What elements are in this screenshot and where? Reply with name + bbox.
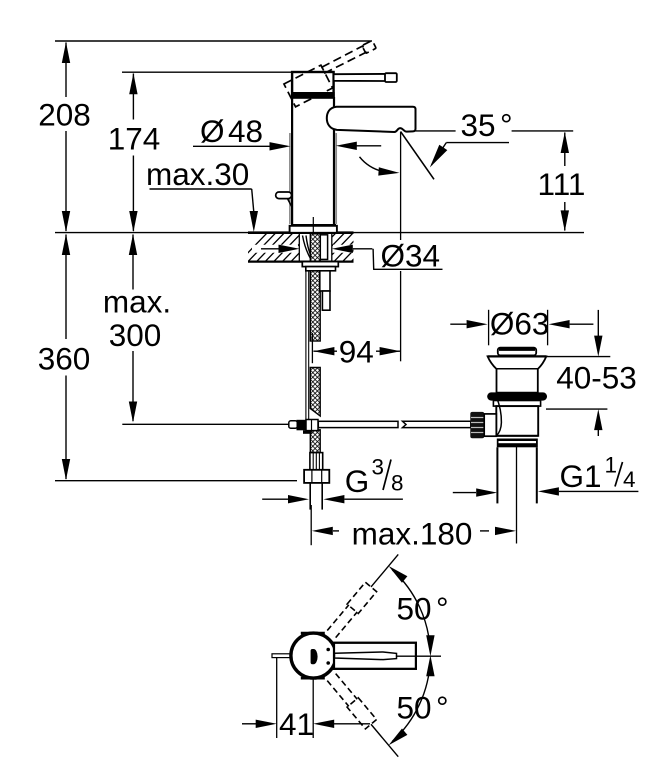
svg-text:G: G <box>345 463 370 499</box>
35deg label <box>415 130 455 132</box>
gray shadow right <box>335 133 337 224</box>
svg-text:35°: 35° <box>461 107 513 143</box>
extension line max300 bottom <box>122 423 289 425</box>
svg-text:3: 3 <box>372 455 385 480</box>
svg-text:1: 1 <box>605 453 618 478</box>
handle rect redraw over circle <box>334 643 416 669</box>
centerline right <box>397 655 441 657</box>
svg-text:4: 4 <box>623 467 636 492</box>
G3/8 arrows <box>262 498 288 500</box>
bottom edge line <box>496 435 538 437</box>
mounting stud <box>320 271 330 291</box>
plug disc <box>498 348 536 356</box>
horizontal pull rod (right piece with break chevron) <box>403 421 471 427</box>
counter top line <box>55 232 584 234</box>
svg-text:300: 300 <box>109 317 162 353</box>
svg-text:111: 111 <box>538 166 586 202</box>
dimension 111 <box>564 133 566 231</box>
G3/8 fitting corrugated <box>310 453 323 470</box>
dimension 174 <box>132 74 134 232</box>
rod connector <box>289 421 298 428</box>
extension line 360 bottom <box>55 480 297 482</box>
knurled knob <box>470 412 484 438</box>
cartridge D shape <box>311 649 318 664</box>
dimension max.300 <box>132 235 134 422</box>
svg-text:50°: 50° <box>397 690 449 726</box>
svg-text:G1: G1 <box>560 458 602 494</box>
counter hatching <box>238 232 380 263</box>
hole right edge <box>331 233 333 262</box>
horizontal pull rod (left piece) <box>318 421 398 427</box>
cap bottom band <box>291 92 335 98</box>
inner arrow at body right <box>341 145 381 147</box>
svg-text:Ø63: Ø63 <box>490 305 550 341</box>
lower dashed lever 50deg <box>326 672 404 761</box>
hole left edge <box>298 233 300 262</box>
extension line 174 <box>122 71 292 73</box>
centerline <box>312 217 314 234</box>
drain axis line <box>516 447 518 544</box>
G1 1/4 arrows <box>453 492 476 494</box>
dimension Ø34 <box>252 245 298 253</box>
body circle <box>291 633 336 678</box>
dots <box>326 648 330 652</box>
svg-text:max.30: max.30 <box>146 156 249 192</box>
extension line top (208) <box>55 40 372 42</box>
svg-text:360: 360 <box>38 340 91 376</box>
circle flats <box>301 632 325 635</box>
dimension 360 <box>65 235 67 480</box>
recess curve <box>496 397 501 437</box>
dimension Ø63 <box>488 310 490 346</box>
curves in hole <box>303 236 312 259</box>
spout <box>327 107 416 132</box>
counter bottom line <box>248 261 354 263</box>
upper dashed lever 50deg <box>326 550 404 639</box>
swivel arc arrow <box>360 157 392 173</box>
upper 50 arc <box>392 570 430 652</box>
supply pipe <box>309 483 311 510</box>
svg-text:174: 174 <box>108 121 161 157</box>
dashed handle (raised position) <box>284 39 383 106</box>
dimension max.180 <box>310 505 312 545</box>
dimension 40-53 <box>597 310 599 336</box>
base plate <box>290 226 337 233</box>
svg-text:max.180: max.180 <box>352 515 473 551</box>
flange funnel <box>488 356 547 392</box>
gray shadow left <box>289 133 291 224</box>
braided hose segments <box>310 234 320 453</box>
svg-text:8: 8 <box>391 471 404 496</box>
tab on body left <box>276 192 292 199</box>
threaded band <box>497 439 538 448</box>
seal ring black <box>487 392 547 400</box>
dimension 41 <box>276 658 278 738</box>
svg-text:40-53: 40-53 <box>556 360 637 396</box>
svg-text:208: 208 <box>38 97 91 133</box>
vertical extension from spout mouth <box>400 132 402 240</box>
dimension 94 <box>311 333 313 363</box>
body outline <box>291 97 293 225</box>
handle rect <box>334 643 416 669</box>
svg-text:max.: max. <box>103 284 171 320</box>
bolt in hole <box>320 235 327 260</box>
inner lever wedge <box>335 652 397 660</box>
pull rod top view <box>272 654 291 658</box>
lever paddle <box>385 73 397 82</box>
G3/8 nut <box>304 470 329 483</box>
svg-text:41: 41 <box>279 706 314 742</box>
lower 50 arc <box>392 660 430 742</box>
dimension 208 <box>65 43 67 232</box>
knob connector <box>484 414 496 436</box>
svg-text:Ø48: Ø48 <box>200 113 263 149</box>
flange nut <box>302 262 338 267</box>
lever bar <box>334 74 386 81</box>
handle cap <box>292 72 334 98</box>
valve body <box>496 406 538 436</box>
pull rod vertical <box>306 267 309 420</box>
svg-text:50°: 50° <box>397 590 449 626</box>
stream line 35deg <box>401 132 434 180</box>
svg-text:94: 94 <box>339 333 374 369</box>
svg-text:Ø34: Ø34 <box>381 238 441 274</box>
ring below seal <box>493 401 540 407</box>
body bottom line <box>291 224 336 227</box>
drain pipe <box>496 447 498 503</box>
